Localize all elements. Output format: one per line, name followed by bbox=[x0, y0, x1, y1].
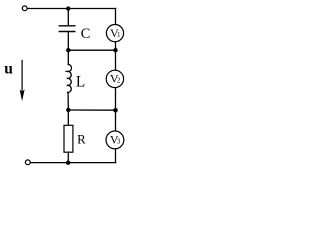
wire C top lead bbox=[67, 9, 69, 26]
wire L bottom lead bbox=[67, 93, 69, 110]
wire right rail bottom segment bbox=[115, 149, 117, 163]
svg-text:3: 3 bbox=[117, 138, 121, 146]
terminal top-left bbox=[22, 6, 27, 11]
resistor R bbox=[64, 125, 73, 152]
svg-text:2: 2 bbox=[117, 76, 121, 84]
terminal bottom-left bbox=[25, 160, 30, 165]
wire bottom rail bbox=[31, 162, 116, 164]
wire R top lead bbox=[67, 110, 69, 125]
inductor L bbox=[67, 64, 72, 92]
svg-text:L: L bbox=[76, 74, 85, 91]
svg-text:R: R bbox=[77, 132, 86, 146]
capacitor C bbox=[59, 26, 75, 32]
wire L top lead bbox=[67, 50, 69, 64]
wire right rail V2-V3 segment bbox=[115, 88, 117, 132]
wire node C horizontal bbox=[68, 109, 115, 111]
voltmeter V3 bbox=[106, 131, 124, 149]
svg-text:C: C bbox=[81, 26, 91, 42]
wire right rail top segment bbox=[115, 9, 117, 25]
wire top rail bbox=[27, 8, 115, 10]
svg-text:u: u bbox=[4, 61, 13, 78]
voltage arrow u bbox=[20, 60, 25, 101]
node B right junction dot bbox=[113, 48, 117, 52]
voltmeter V1 bbox=[106, 24, 123, 41]
voltmeter V2 bbox=[106, 70, 123, 87]
wire node B horizontal bbox=[68, 49, 115, 51]
node C right junction dot bbox=[113, 108, 118, 113]
wire C bottom lead bbox=[67, 32, 69, 51]
node D (bottom junction dot) bbox=[66, 161, 70, 165]
node B left junction dot bbox=[66, 48, 70, 52]
wire R bottom lead bbox=[67, 152, 69, 163]
wire right rail V1-V2 segment bbox=[115, 42, 117, 70]
svg-text:1: 1 bbox=[117, 31, 121, 39]
node C left junction dot bbox=[66, 108, 70, 112]
node A (top junction dot) bbox=[66, 6, 70, 10]
